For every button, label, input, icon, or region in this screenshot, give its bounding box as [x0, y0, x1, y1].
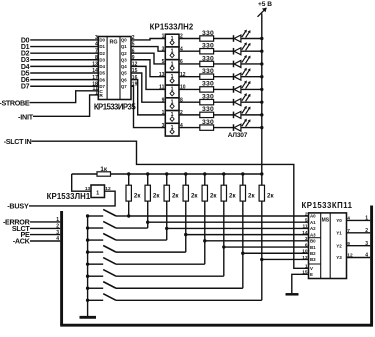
svg-text:B2: B2	[310, 251, 316, 256]
wire Q4 to inverter	[131, 66, 165, 89]
wire mux input A0	[129, 215, 309, 217]
switch SA3	[86, 238, 89, 241]
svg-text:Q0: Q0	[121, 38, 127, 43]
resistor R6 330	[200, 99, 214, 104]
junction rail R15	[222, 172, 225, 175]
junction mux input A0	[127, 214, 130, 217]
svg-text:Y2: Y2	[336, 243, 342, 248]
resistor R15 2k	[221, 185, 226, 201]
inverter gate 7 (pins 1-2)	[165, 111, 179, 124]
svg-text:-STROBE: -STROBE	[0, 98, 30, 107]
wire R2 to LED	[214, 50, 234, 52]
svg-text:КР1533ЛН2: КР1533ЛН2	[150, 23, 194, 32]
svg-text:2: 2	[132, 35, 135, 41]
svg-text:D1: D1	[99, 44, 105, 49]
wire -INIT	[33, 95, 98, 116]
inverter gate 5 (pins 11-10)	[165, 85, 179, 98]
wire R14 down to switch 5	[204, 201, 206, 264]
wire LED4 to +5V rail	[241, 76, 262, 78]
wire R15 down to switch 6	[223, 201, 225, 276]
wire R7 to LED	[214, 114, 234, 116]
svg-text:2к: 2к	[191, 192, 198, 199]
wire R5 to LED	[214, 88, 234, 90]
svg-text:D7: D7	[21, 84, 30, 91]
svg-text:1: 1	[305, 264, 308, 270]
wire mux input B2	[243, 252, 309, 254]
svg-text:2: 2	[305, 211, 308, 217]
junction rail R12	[165, 172, 168, 175]
svg-text:330: 330	[202, 119, 214, 126]
svg-text:D6: D6	[99, 77, 105, 82]
svg-text:RG: RG	[109, 40, 117, 46]
svg-text:КР1533КП11: КР1533КП11	[302, 201, 353, 210]
svg-text:2: 2	[365, 228, 368, 234]
wire inverter 8 output	[179, 127, 200, 129]
inverter gate 6 (pins 9-8)	[165, 98, 179, 111]
svg-text:6: 6	[132, 48, 135, 54]
wire inverter 1 output	[179, 38, 200, 40]
wire LED7 to +5V rail	[241, 114, 262, 116]
wire D1	[30, 46, 98, 48]
svg-text:Y1: Y1	[336, 231, 342, 236]
svg-text:Q1: Q1	[121, 44, 127, 49]
LED VD7 AL307	[233, 112, 235, 119]
wire mux input A2	[167, 227, 309, 229]
svg-text:330: 330	[202, 43, 214, 50]
inverter gate 4 (pins 13-12)	[165, 72, 179, 85]
svg-text:330: 330	[202, 106, 214, 113]
wire rail to inverter U2 input	[72, 174, 91, 191]
wire D6	[30, 79, 98, 81]
wire Y1 to connector	[347, 232, 371, 234]
switch SA5	[86, 262, 89, 265]
resistor R16 2k	[240, 185, 245, 201]
LED VD2 AL307	[233, 48, 235, 55]
wire rail to R12	[166, 174, 168, 185]
junction mux input A1	[146, 221, 149, 224]
LED VD6 AL307	[233, 99, 235, 106]
wire Y0 to connector	[347, 219, 371, 221]
svg-text:-BUSY: -BUSY	[7, 201, 29, 210]
ground switch common	[80, 316, 97, 319]
wire LED3 to +5V rail	[241, 63, 262, 65]
switch SA8	[86, 299, 89, 302]
svg-text:КР1533ЛН1: КР1533ЛН1	[47, 192, 91, 201]
resistor R14 2k	[202, 185, 207, 201]
wire R12 down to switch 3	[166, 201, 168, 240]
wire R17 down to switch 8	[261, 201, 263, 300]
svg-text:6: 6	[305, 242, 308, 248]
svg-text:1: 1	[162, 34, 165, 40]
resistor R13 2k	[183, 185, 188, 201]
wire D0	[30, 39, 98, 41]
svg-text:1: 1	[96, 190, 99, 196]
wire inverter 3 output	[179, 63, 200, 65]
svg-text:14: 14	[92, 68, 98, 74]
svg-text:4: 4	[365, 253, 368, 259]
svg-text:13: 13	[92, 62, 98, 68]
svg-text:11: 11	[303, 224, 308, 230]
inverter gate 1 (pins 1-2)	[165, 34, 179, 47]
svg-text:2: 2	[56, 224, 59, 230]
junction mux input B3	[260, 258, 263, 261]
wire Q1 to inverter	[131, 47, 165, 52]
svg-text:V: V	[310, 266, 313, 271]
svg-text:B0: B0	[310, 239, 316, 244]
inverter gate 2 (pins 3-4)	[165, 47, 179, 60]
junction rail R14	[203, 172, 206, 175]
svg-text:1: 1	[162, 110, 165, 116]
svg-text:Y0: Y0	[336, 218, 342, 223]
wire R10 down to switch 1	[128, 201, 130, 216]
junction mux input A3	[184, 233, 187, 236]
connector bottom edge	[60, 324, 371, 327]
LED VD3 AL307	[233, 61, 235, 68]
svg-text:D2: D2	[99, 51, 105, 56]
svg-text:3: 3	[56, 230, 59, 236]
junction LED4 rail	[260, 75, 263, 78]
svg-text:2к: 2к	[229, 192, 236, 199]
svg-text:14: 14	[302, 230, 308, 236]
resistor R1 330	[200, 36, 214, 41]
svg-text:КР1533ИР35: КР1533ИР35	[94, 103, 136, 112]
svg-text:3: 3	[162, 123, 165, 129]
svg-text:2к: 2к	[172, 192, 179, 199]
svg-text:2к: 2к	[134, 192, 141, 199]
svg-text:330: 330	[202, 55, 214, 62]
wire LED5 to +5V rail	[241, 88, 262, 90]
svg-text:B3: B3	[310, 257, 316, 262]
wire -ERROR	[30, 221, 60, 223]
svg-text:11: 11	[159, 85, 165, 91]
svg-text:2к: 2к	[210, 192, 217, 199]
wire mux input B1	[224, 246, 309, 248]
wire SLCT	[30, 227, 60, 229]
switch common wire	[87, 216, 89, 316]
wire mux input A1	[148, 221, 309, 223]
wire Y2 to connector	[347, 245, 371, 247]
svg-text:5: 5	[305, 218, 308, 224]
power +5V arrow	[258, 8, 267, 17]
svg-text:2к: 2к	[153, 192, 160, 199]
wire R8 to LED	[214, 127, 234, 129]
svg-text:E: E	[310, 272, 313, 277]
svg-text:D4: D4	[99, 64, 105, 69]
wire rail to R14	[204, 174, 206, 185]
wire rail to R17	[261, 174, 263, 185]
inverter gate 3 (pins 5-6)	[165, 60, 179, 73]
svg-text:B1: B1	[310, 245, 316, 250]
LED VD5 AL307	[233, 86, 235, 93]
wire +5V rail	[261, 14, 263, 175]
switch SA7	[86, 287, 89, 290]
wire R13 down to switch 4	[185, 201, 187, 252]
svg-text:9: 9	[132, 55, 135, 61]
LED VD1 AL307	[233, 35, 235, 42]
multiplexer U3 body	[309, 213, 347, 279]
wire LED6 to +5V rail	[241, 101, 262, 103]
svg-text:D7: D7	[99, 84, 105, 89]
wire rail to R11	[147, 174, 149, 185]
junction LED5 rail	[260, 88, 263, 91]
resistor R3 330	[200, 61, 214, 66]
wire rail to R15	[223, 174, 225, 185]
junction LED7 rail	[260, 113, 263, 116]
wire R11 down to switch 2	[147, 201, 149, 228]
svg-text:A1: A1	[310, 220, 316, 225]
junction LED3 rail	[260, 62, 263, 65]
svg-text:Q4: Q4	[121, 64, 127, 69]
svg-text:A3: A3	[310, 232, 316, 237]
wire Q0 to inverter	[131, 39, 165, 40]
svg-text:12: 12	[132, 62, 138, 68]
svg-text:1к: 1к	[100, 166, 107, 173]
resistor R4 330	[200, 74, 214, 79]
svg-text:3: 3	[162, 46, 165, 52]
resistor R11 2k	[145, 185, 150, 201]
svg-text:3: 3	[365, 241, 368, 247]
svg-text:Q6: Q6	[121, 77, 127, 82]
svg-text:A0: A0	[310, 214, 316, 219]
resistor R5 330	[200, 87, 214, 92]
svg-text:3: 3	[305, 236, 308, 242]
wire D2	[30, 52, 98, 54]
svg-text:13: 13	[302, 255, 308, 261]
wire D5	[30, 72, 98, 74]
wire D3	[30, 59, 98, 61]
wire inverter 2 output	[179, 50, 200, 52]
switch SA6	[86, 275, 89, 278]
LED VD4 AL307	[233, 73, 235, 80]
svg-text:1: 1	[95, 90, 98, 96]
svg-text:2к: 2к	[248, 192, 255, 199]
wire LED8 to +5V rail	[241, 127, 262, 129]
wire inverter 7 output	[179, 114, 200, 116]
resistor R10 2k	[126, 185, 131, 201]
inverter U2 KR1533LN1	[91, 185, 105, 198]
wire Q3 to inverter	[131, 60, 165, 77]
svg-text:19: 19	[132, 81, 138, 87]
switch SA1	[86, 214, 89, 217]
svg-text:Q5: Q5	[121, 71, 127, 76]
svg-text:17: 17	[92, 75, 98, 81]
wire inverter 4 output	[179, 76, 200, 78]
connector left edge	[60, 211, 63, 325]
junction mux input B1	[222, 245, 225, 248]
svg-text:-SLCT IN: -SLCT IN	[4, 137, 32, 146]
wire R6 to LED	[214, 101, 234, 103]
resistor R17 2k	[259, 185, 264, 201]
svg-text:-ACK: -ACK	[13, 236, 31, 245]
svg-text:5: 5	[132, 42, 135, 48]
svg-text:Q2: Q2	[121, 51, 127, 56]
wire R3 to LED	[214, 63, 234, 65]
svg-text:D3: D3	[99, 57, 105, 62]
wire rail to R16	[242, 174, 244, 185]
wire Q2 to inverter	[131, 53, 165, 64]
svg-text:-INIT: -INIT	[18, 113, 34, 122]
svg-text:A2: A2	[310, 226, 316, 231]
junction mux input B0	[203, 239, 206, 242]
wire LED2 to +5V rail	[241, 50, 262, 52]
wire D4	[30, 65, 98, 67]
junction LED2 rail	[260, 50, 263, 53]
resistor R8 330	[200, 125, 214, 130]
inverter gate 8 (pins 3-4)	[165, 123, 179, 136]
svg-text:R: R	[99, 93, 103, 99]
junction rail R11	[146, 172, 149, 175]
svg-text:10: 10	[302, 249, 308, 255]
wire mux input B3	[262, 258, 309, 260]
svg-text:Q7: Q7	[121, 84, 127, 89]
wire PE	[30, 234, 60, 236]
svg-text:330: 330	[202, 68, 214, 75]
svg-text:13: 13	[85, 186, 91, 192]
junction LED6 rail	[260, 100, 263, 103]
wire R16 down to switch 7	[242, 201, 244, 288]
svg-text:16: 16	[132, 75, 138, 81]
junction mux input B2	[241, 252, 244, 255]
svg-text:330: 330	[202, 30, 214, 37]
resistor R12 2k	[164, 185, 169, 201]
svg-text:330: 330	[202, 93, 214, 100]
resistor R7 330	[200, 112, 214, 117]
svg-text:2к: 2к	[267, 192, 274, 199]
LED VD8 AL307	[233, 124, 235, 131]
wire pull-up rail	[72, 173, 262, 175]
svg-text:1: 1	[365, 216, 368, 222]
register U1 KR1533IR35 body	[98, 37, 131, 100]
junction rail R16	[241, 172, 244, 175]
connector right edge	[370, 206, 373, 327]
svg-text:MS: MS	[322, 218, 330, 224]
wire inverter 6 output	[179, 101, 200, 103]
svg-text:330: 330	[202, 81, 214, 88]
resistor R9 1k	[97, 172, 111, 176]
svg-text:+5 В: +5 В	[258, 1, 272, 8]
ground mux	[286, 293, 299, 296]
svg-text:9: 9	[162, 97, 165, 103]
svg-text:D0: D0	[99, 38, 105, 43]
svg-text:4: 4	[56, 236, 59, 242]
junction rail +5V	[260, 172, 263, 175]
wire U2 output to -BUSY	[29, 191, 115, 206]
svg-text:13: 13	[159, 72, 165, 78]
junction mux input A2	[165, 227, 168, 230]
wire Q6 to inverter	[131, 80, 165, 115]
wire Q5 to inverter	[131, 73, 165, 102]
switch SA4	[86, 250, 89, 253]
junction LED8 rail	[260, 126, 263, 129]
wire R1 to LED	[214, 38, 234, 40]
wire inverter 5 output	[179, 88, 200, 90]
svg-text:1: 1	[56, 217, 59, 223]
wire LED1 to +5V rail	[241, 38, 262, 40]
svg-text:Q3: Q3	[121, 57, 127, 62]
wire -STROBE	[30, 91, 99, 103]
wire R4 to LED	[214, 76, 234, 78]
junction rail R10	[127, 172, 130, 175]
svg-text:Y3: Y3	[336, 255, 342, 260]
junction LED1 rail	[260, 37, 263, 40]
svg-text:D5: D5	[99, 71, 105, 76]
svg-text:АЛ307: АЛ307	[228, 132, 248, 139]
wire mux input B0	[205, 240, 309, 242]
switch SA2	[86, 226, 89, 229]
wire mux input A3	[186, 234, 309, 236]
wire -SLCT IN to mux select pin 1	[32, 141, 309, 268]
junction rail R13	[184, 172, 187, 175]
wire D7	[30, 85, 98, 87]
svg-text:5: 5	[162, 59, 165, 65]
wire rail to R13	[185, 174, 187, 185]
wire Y3 to connector	[347, 257, 371, 259]
resistor R2 330	[200, 49, 214, 54]
wire rail to R10	[128, 174, 130, 185]
wire Q7 to inverter	[131, 86, 165, 127]
wire mux pin 15 to ground	[292, 274, 309, 293]
wire -ACK	[30, 240, 60, 242]
svg-text:15: 15	[132, 68, 138, 74]
